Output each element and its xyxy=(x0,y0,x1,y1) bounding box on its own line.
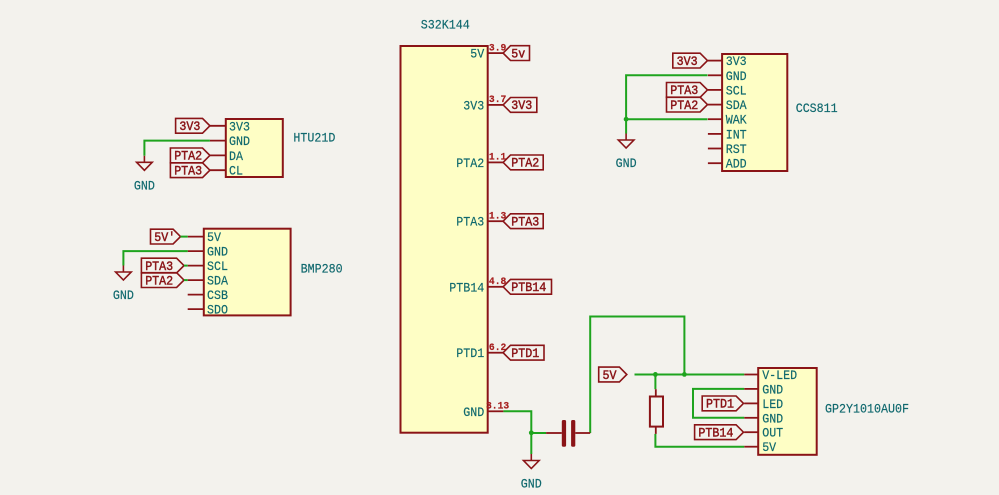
svg-text:RST: RST xyxy=(726,142,747,157)
svg-text:5v: 5v xyxy=(511,47,525,61)
svg-text:GP2Y1010AU0F: GP2Y1010AU0F xyxy=(825,401,909,416)
svg-text:SDA: SDA xyxy=(207,274,228,289)
svg-text:5V': 5V' xyxy=(154,231,175,245)
svg-text:3V3: 3V3 xyxy=(179,120,200,134)
svg-text:PTB14: PTB14 xyxy=(511,281,546,295)
svg-text:PTA2: PTA2 xyxy=(174,150,202,164)
svg-text:PTA3: PTA3 xyxy=(145,260,173,274)
svg-text:GND: GND xyxy=(762,411,783,426)
svg-text:PTA3: PTA3 xyxy=(456,215,484,230)
svg-text:WAK: WAK xyxy=(726,113,747,128)
svg-text:GND: GND xyxy=(521,477,542,492)
svg-text:DA: DA xyxy=(229,149,243,164)
svg-text:PTA3: PTA3 xyxy=(174,165,202,179)
svg-text:SCL: SCL xyxy=(207,259,228,274)
svg-text:GND: GND xyxy=(616,156,637,171)
svg-text:PTB14: PTB14 xyxy=(698,427,733,441)
svg-text:ADD: ADD xyxy=(726,157,747,172)
svg-text:5V: 5V xyxy=(470,47,484,62)
svg-text:SDA: SDA xyxy=(726,98,747,113)
svg-text:PTA2: PTA2 xyxy=(456,156,484,171)
svg-text:PTD1: PTD1 xyxy=(706,398,734,412)
svg-text:OUT: OUT xyxy=(762,426,783,441)
svg-text:5V: 5V xyxy=(207,230,221,245)
svg-text:GND: GND xyxy=(134,179,155,194)
svg-text:SCL: SCL xyxy=(726,83,747,98)
svg-text:PTA2: PTA2 xyxy=(145,274,173,288)
svg-text:INT: INT xyxy=(726,127,747,142)
svg-text:HTU21D: HTU21D xyxy=(293,130,335,145)
svg-text:GND: GND xyxy=(229,134,250,149)
svg-text:PTA3: PTA3 xyxy=(670,84,698,98)
svg-text:GND: GND xyxy=(762,382,783,397)
svg-text:5V: 5V xyxy=(762,440,776,455)
svg-text:3V3: 3V3 xyxy=(229,119,250,134)
svg-text:BMP280: BMP280 xyxy=(301,262,343,277)
svg-text:PTD1: PTD1 xyxy=(456,346,484,361)
svg-text:3V3: 3V3 xyxy=(511,99,532,113)
svg-text:3V3: 3V3 xyxy=(677,55,698,69)
svg-text:LED: LED xyxy=(762,397,783,412)
svg-text:GND: GND xyxy=(207,245,228,260)
svg-text:CSB: CSB xyxy=(207,288,228,303)
svg-text:PTA3: PTA3 xyxy=(511,216,539,230)
svg-text:PTB14: PTB14 xyxy=(449,280,484,295)
svg-text:PTD1: PTD1 xyxy=(511,347,539,361)
svg-text:GND: GND xyxy=(463,405,484,420)
svg-text:S32K144: S32K144 xyxy=(421,18,470,33)
svg-text:GND: GND xyxy=(726,69,747,84)
svg-text:PTA2: PTA2 xyxy=(511,157,539,171)
svg-text:PTA2: PTA2 xyxy=(670,99,698,113)
svg-text:SDO: SDO xyxy=(207,303,228,318)
svg-text:3V3: 3V3 xyxy=(463,98,484,113)
svg-text:CL: CL xyxy=(229,164,243,179)
svg-text:GND: GND xyxy=(113,288,134,303)
svg-text:CCS811: CCS811 xyxy=(796,101,838,116)
svg-text:3V3: 3V3 xyxy=(726,54,747,69)
svg-text:V-LED: V-LED xyxy=(762,368,797,383)
svg-text:5V: 5V xyxy=(603,369,617,383)
